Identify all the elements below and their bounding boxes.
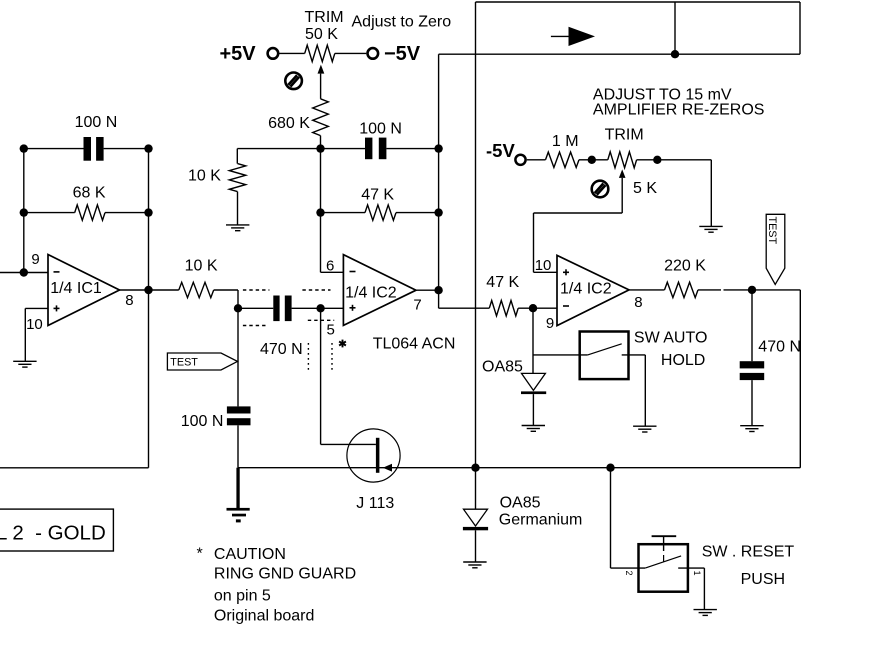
wire to ground	[710, 160, 712, 227]
ground (OA85 Germanium)	[463, 562, 486, 568]
label box L 2 - GOLD	[0, 509, 113, 551]
svg-text:RING GND GUARD: RING GND GUARD	[214, 566, 356, 583]
svg-text:Germanium: Germanium	[499, 511, 583, 528]
node	[653, 156, 661, 164]
wire feedback left vertical	[23, 149, 25, 273]
svg-text:470 N: 470 N	[758, 339, 801, 356]
asterisk pin 5 guard	[339, 340, 346, 348]
svg-text:*: *	[197, 546, 203, 563]
plus sign IC2 mid	[350, 305, 356, 311]
wire vertical x675	[674, 2, 676, 54]
resistor R 680K	[313, 99, 329, 136]
svg-text:220 K: 220 K	[664, 258, 706, 275]
node	[606, 464, 614, 472]
minus sign IC2 mid	[350, 271, 356, 273]
wire vertical x438 top bus to 47K	[439, 54, 490, 308]
svg-text:100 N: 100 N	[359, 121, 402, 138]
switch SW AUTO HOLD	[580, 332, 646, 427]
svg-text:CAUTION: CAUTION	[214, 546, 286, 563]
ground (IC1 pin 10)	[13, 361, 36, 367]
svg-text:−5V: −5V	[384, 43, 421, 65]
wiper arrow 5K + wire to pin 10	[534, 169, 626, 272]
op-amp U 1/4 IC2 (middle, TL064)	[343, 255, 416, 326]
switch SW RESET PUSH	[639, 536, 705, 609]
svg-text:100 N: 100 N	[75, 114, 118, 131]
wire 100N row left	[237, 148, 365, 150]
svg-text:1/4 IC2: 1/4 IC2	[345, 284, 397, 301]
wire	[527, 159, 546, 161]
wire	[24, 148, 84, 150]
node	[316, 304, 324, 312]
screw adjuster (50K trim)	[285, 73, 302, 90]
svg-text:10: 10	[535, 257, 552, 274]
test point flag TEST	[167, 353, 237, 370]
ground (OA85)	[522, 426, 545, 432]
svg-text:Original board: Original board	[214, 607, 315, 624]
potentiometer R 50K	[305, 45, 335, 61]
wire IC2 mid output pin 7	[416, 289, 439, 291]
svg-text:6: 6	[326, 257, 334, 274]
svg-text:PUSH: PUSH	[741, 571, 785, 588]
plus sign IC2 right	[563, 269, 569, 275]
svg-text:TRIM: TRIM	[305, 9, 344, 26]
node	[316, 144, 324, 152]
svg-text:HOLD: HOLD	[661, 352, 705, 369]
node	[434, 208, 442, 216]
svg-text:10 K: 10 K	[188, 168, 221, 185]
guard ring dotted traces	[243, 290, 334, 326]
wire	[292, 307, 344, 309]
wire pin9 node down	[533, 308, 588, 373]
ground (thick, below 100N)	[227, 468, 250, 523]
node	[144, 208, 152, 216]
svg-text:2: 2	[624, 571, 634, 576]
test point flag TEST (output)	[766, 214, 785, 284]
wire pin 10 to ground	[25, 308, 48, 361]
node	[588, 156, 596, 164]
wire	[320, 136, 322, 149]
svg-text:470 N: 470 N	[260, 341, 303, 358]
capacitor C 470N (output)	[740, 290, 765, 426]
resistor R 10K (series)	[179, 282, 214, 297]
svg-text:8: 8	[634, 294, 642, 311]
svg-text:10 K: 10 K	[185, 258, 218, 275]
node output	[748, 286, 756, 294]
minus sign IC2 right	[563, 305, 569, 307]
resistor R 1M	[546, 152, 580, 167]
svg-text:5: 5	[327, 322, 335, 339]
wire	[335, 52, 367, 54]
svg-text:9: 9	[31, 251, 39, 268]
wire	[238, 307, 273, 309]
diode D OA85	[521, 373, 546, 425]
wire pin5 node down	[237, 308, 239, 406]
resistor R 47K (feedback)	[365, 205, 396, 220]
svg-text:+5V: +5V	[220, 43, 257, 65]
wire top bus y54	[439, 53, 800, 55]
plus sign IC1	[54, 305, 60, 311]
svg-text:1 M: 1 M	[552, 133, 579, 150]
ground (10K)	[226, 225, 249, 231]
wire	[637, 159, 712, 161]
svg-text:TRIM: TRIM	[605, 127, 644, 144]
resistor R 10K (to ground)	[229, 149, 245, 225]
wiper arrow 50K	[318, 65, 325, 99]
ground (SW RESET)	[694, 610, 717, 616]
svg-text:5 K: 5 K	[633, 180, 657, 197]
node	[144, 286, 152, 294]
svg-text:-5V: -5V	[486, 140, 515, 161]
wire J113 gate	[321, 308, 376, 444]
svg-text:SW . RESET: SW . RESET	[702, 543, 795, 560]
potentiometer R TRIM 5K	[608, 152, 637, 168]
svg-text:100 N: 100 N	[181, 413, 224, 430]
wire pin6	[321, 213, 344, 273]
capacitor C 100N (IC1 feedback)	[84, 137, 104, 161]
wire	[518, 307, 557, 309]
svg-text:J 113: J 113	[356, 495, 394, 512]
wire	[386, 148, 438, 150]
svg-text:9: 9	[546, 315, 554, 332]
wire	[237, 425, 239, 467]
terminal -5V (re-zero)	[515, 155, 525, 165]
resistor R 47K (input to IC2 right)	[489, 301, 518, 316]
minus sign IC1	[54, 271, 60, 273]
terminal -5V	[368, 48, 379, 59]
node	[234, 304, 242, 312]
wire top rail	[476, 2, 801, 54]
node	[316, 208, 324, 216]
svg-text:L 2 - GOLD: L 2 - GOLD	[0, 522, 106, 545]
diode D OA85 Germanium	[463, 468, 488, 562]
svg-text:TEST: TEST	[766, 217, 778, 245]
node	[434, 286, 442, 294]
wire input to pin 9	[0, 272, 48, 274]
svg-text:47 K: 47 K	[361, 187, 394, 204]
svg-text:1: 1	[692, 571, 702, 576]
capacitor C 100N (to ground)	[227, 406, 251, 425]
svg-text:on pin 5: on pin 5	[214, 588, 271, 605]
wire IC2 right output pin 8	[629, 289, 665, 291]
capacitor C 100N (integrator)	[365, 138, 386, 160]
svg-text:OA85: OA85	[500, 495, 541, 512]
ground (470N output)	[740, 426, 763, 432]
resistor R 220K	[665, 282, 699, 297]
terminal +5V	[268, 48, 279, 59]
wire	[105, 212, 149, 214]
ground (5K trim)	[699, 226, 722, 232]
resistor R 68K	[75, 205, 105, 220]
wire stub to left edge	[0, 467, 149, 469]
screw adjuster (5K trim)	[592, 181, 609, 198]
svg-text:TL064 ACN: TL064 ACN	[373, 335, 456, 352]
wire 47K row	[321, 149, 366, 213]
transistor Q J113	[347, 429, 400, 482]
svg-text:Adjust to Zero: Adjust to Zero	[352, 14, 452, 31]
svg-text:68 K: 68 K	[73, 185, 106, 202]
svg-text:AMPLIFIER RE-ZEROS: AMPLIFIER RE-ZEROS	[593, 102, 765, 119]
wire IC1 output	[120, 289, 179, 291]
svg-text:50 K: 50 K	[305, 26, 338, 43]
wire	[579, 159, 608, 161]
svg-text:TEST: TEST	[170, 356, 198, 368]
svg-text:10: 10	[26, 316, 43, 333]
wire	[698, 289, 800, 291]
wire right vertical x148	[148, 149, 150, 468]
svg-text:1/4 IC2: 1/4 IC2	[560, 280, 612, 297]
op-amp U 1/4 IC2 (right)	[557, 255, 629, 325]
wire	[214, 290, 238, 308]
signal direction arrow	[551, 27, 595, 46]
ground rail	[238, 467, 801, 469]
node	[20, 144, 28, 152]
wire long vertical x475	[475, 2, 477, 468]
svg-text:OA85: OA85	[482, 358, 523, 375]
wire	[104, 148, 149, 150]
wire	[396, 212, 439, 214]
svg-text:680 K: 680 K	[268, 115, 310, 132]
op-amp U 1/4 IC1	[48, 255, 120, 326]
node	[20, 208, 28, 216]
wire right vertical	[799, 290, 801, 468]
capacitor C 470N (coupling)	[273, 296, 291, 322]
node	[434, 144, 442, 152]
svg-text:47 K: 47 K	[486, 274, 519, 291]
svg-text:8: 8	[125, 292, 133, 309]
node pin 9	[529, 304, 537, 312]
wire	[24, 212, 75, 214]
svg-text:7: 7	[413, 297, 421, 314]
ground (SW AUTO)	[633, 426, 656, 432]
node	[471, 464, 479, 472]
svg-text:1/4 IC1: 1/4 IC1	[50, 280, 102, 297]
svg-text:SW AUTO: SW AUTO	[634, 330, 708, 347]
guard ring dotted verticals	[308, 343, 332, 370]
node	[20, 268, 28, 276]
node junction x675 y54	[671, 50, 679, 58]
wire to SW RESET	[611, 468, 646, 568]
node	[144, 144, 152, 152]
wire	[279, 52, 304, 54]
